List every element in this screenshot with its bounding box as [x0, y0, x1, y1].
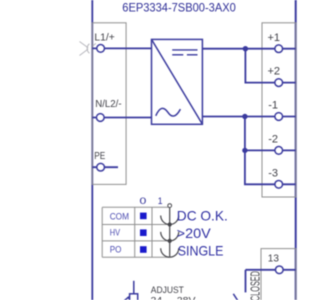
svg-text:SINGLE: SINGLE [178, 242, 224, 258]
svg-text:N/L2/-: N/L2/- [95, 99, 121, 110]
svg-text:HV: HV [110, 228, 121, 238]
DIP switch arc row2 [161, 232, 179, 241]
svg-text:-3: -3 [268, 167, 278, 179]
DIP switch arc row1 [161, 216, 179, 225]
svg-text:0: 0 [140, 196, 147, 206]
wire PE stub [92, 166, 118, 168]
svg-text:ADJUST: ADJUST [151, 285, 184, 296]
svg-text:-2: -2 [268, 134, 278, 146]
AC sine symbol [156, 108, 181, 116]
wire: converter - output to -1 [202, 116, 295, 118]
wire branch to +2 [245, 49, 295, 83]
LED square PO [140, 246, 147, 253]
svg-text:-1: -1 [268, 100, 278, 112]
svg-text:DC O.K.: DC O.K. [177, 208, 228, 224]
wire contact 13 row [246, 269, 296, 271]
svg-text:+1: +1 [268, 32, 281, 44]
svg-text:+2: +2 [268, 66, 281, 78]
node: -1 junction [242, 114, 247, 119]
signal contact box 13 [261, 249, 296, 300]
LED square HV [140, 229, 147, 236]
wire L1 to converter [92, 47, 151, 49]
wire contact drop [245, 270, 247, 293]
DIP top contact circle [168, 204, 172, 208]
node: dip junction 2 [168, 239, 172, 243]
wire: converter + output to +1 [202, 48, 295, 50]
svg-text:24 ... 28V: 24 ... 28V [151, 296, 197, 300]
connector symbol (grey) at L1 feed [80, 42, 97, 56]
node: dip junction 1 [168, 222, 172, 226]
svg-text:CLOSED: CLOSED [248, 271, 263, 300]
AC/DC converter U1 [152, 39, 203, 124]
DIP switch arc row3 [161, 248, 179, 257]
wire: left input bus [91, 0, 93, 300]
DIP selector line [169, 207, 171, 257]
LED square COM [140, 213, 147, 220]
svg-text:PE: PE [94, 151, 105, 162]
svg-text:L1/+: L1/+ [94, 32, 115, 43]
svg-text:13: 13 [268, 254, 280, 265]
DC symbol [172, 49, 197, 51]
node: +1/+2 junction [243, 46, 248, 51]
wire: right output bus [295, 0, 297, 300]
svg-text:PO: PO [110, 244, 122, 254]
wire branch to -3 [245, 150, 296, 184]
node: -2 junction [242, 148, 247, 153]
potentiometer ADJUST [123, 281, 138, 300]
svg-text:6EP3334-7SB00-3AX0: 6EP3334-7SB00-3AX0 [122, 0, 236, 14]
wire branch to -2 [245, 117, 296, 151]
switch arm [233, 294, 242, 300]
svg-text:>20V: >20V [177, 225, 212, 241]
output terminal box X2 [262, 23, 296, 197]
svg-text:1: 1 [158, 196, 163, 206]
svg-text:COM: COM [110, 212, 129, 222]
input terminal box X1 [92, 23, 126, 185]
wire N to converter [92, 117, 151, 119]
LED/DIP table [102, 207, 170, 257]
